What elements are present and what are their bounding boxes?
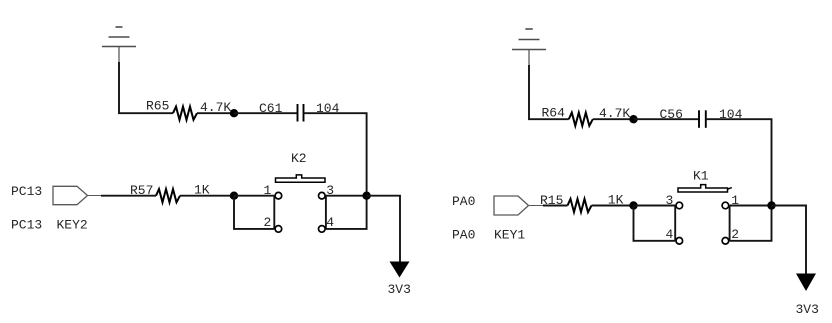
wire to R15 bbox=[543, 205, 568, 207]
ground (right circuit) bbox=[512, 29, 546, 66]
wire C61 to right corner down bbox=[304, 113, 367, 196]
svg-text:K1: K1 bbox=[693, 169, 709, 184]
wire pin3 to node bbox=[326, 195, 367, 197]
svg-text:C56: C56 bbox=[660, 107, 683, 122]
pin 2 bbox=[722, 238, 729, 245]
wire ground to R65 bbox=[119, 62, 173, 113]
svg-text:R64: R64 bbox=[542, 106, 566, 121]
wire node to 3V3 bbox=[367, 196, 400, 262]
wire node to pin1 bbox=[234, 195, 274, 197]
switch K1 button bbox=[678, 185, 728, 192]
svg-text:PA0: PA0 bbox=[452, 228, 475, 243]
wire node to pin3 bbox=[634, 205, 676, 207]
svg-text:KEY2: KEY2 bbox=[57, 217, 88, 232]
switch K1 button tick bbox=[728, 188, 732, 190]
connector PC13 bbox=[53, 186, 88, 204]
svg-text:2: 2 bbox=[264, 215, 272, 230]
resistor R15 bbox=[568, 199, 592, 212]
power 3V3 arrow bbox=[796, 274, 816, 292]
capacitor C61 bbox=[298, 104, 304, 122]
wire R65 to node bbox=[197, 112, 234, 114]
wire R15 to node bbox=[592, 205, 634, 207]
wire connector lead bbox=[88, 195, 105, 197]
wire connector lead bbox=[529, 205, 547, 207]
pin 1 bbox=[275, 192, 282, 199]
wire pin4 row to right bbox=[326, 196, 367, 229]
wire node to C61 bbox=[234, 112, 297, 114]
pin 4 bbox=[676, 238, 683, 245]
svg-text:1: 1 bbox=[264, 183, 272, 198]
pin 3 bbox=[676, 202, 683, 209]
svg-text:3: 3 bbox=[326, 183, 334, 198]
svg-text:PA0: PA0 bbox=[452, 194, 475, 209]
svg-text:4: 4 bbox=[666, 227, 674, 242]
capacitor C56 bbox=[699, 110, 706, 128]
svg-text:4: 4 bbox=[326, 215, 334, 230]
pin 2 bbox=[275, 226, 282, 233]
wire C56 to right corner down bbox=[706, 119, 772, 205]
connector PA0 bbox=[494, 196, 529, 215]
svg-text:R57: R57 bbox=[130, 183, 153, 198]
wire pin2 row to right bbox=[730, 206, 772, 241]
node junction dot bbox=[629, 201, 637, 209]
wire node to 3V3 bbox=[772, 206, 807, 275]
wire ground to R64 bbox=[529, 65, 569, 119]
pin 4 bbox=[319, 226, 326, 233]
svg-text:KEY1: KEY1 bbox=[494, 228, 525, 243]
wire R57 to node bbox=[180, 195, 234, 197]
wire node down to pin2 row bbox=[234, 196, 274, 229]
node junction dot bbox=[230, 109, 238, 117]
svg-text:3V3: 3V3 bbox=[796, 302, 819, 317]
wire pin1 to pin2 bbox=[729, 206, 731, 241]
wire pin1 to pin2 bbox=[273, 196, 275, 229]
wire node down to pin4 row bbox=[634, 206, 676, 241]
switch K2 button bbox=[276, 175, 326, 182]
svg-text:1: 1 bbox=[731, 193, 739, 208]
pin 3 bbox=[319, 192, 326, 199]
svg-text:R65: R65 bbox=[146, 99, 169, 114]
resistor R57 bbox=[156, 189, 180, 202]
wire to R57 bbox=[101, 195, 156, 197]
resistor R65 bbox=[173, 107, 197, 120]
node junction dot bbox=[767, 201, 775, 209]
svg-text:K2: K2 bbox=[291, 151, 307, 166]
resistor R64 bbox=[569, 113, 593, 126]
svg-text:PC13: PC13 bbox=[11, 217, 42, 232]
wire pin3 to pin4 bbox=[674, 206, 676, 241]
power 3V3 arrow bbox=[390, 262, 410, 278]
svg-text:3V3: 3V3 bbox=[388, 282, 411, 297]
wire node to C56 bbox=[634, 118, 700, 120]
svg-text:2: 2 bbox=[731, 227, 739, 242]
ground (left circuit) bbox=[102, 27, 136, 63]
svg-text:3: 3 bbox=[666, 193, 674, 208]
wire R64 to node bbox=[593, 118, 634, 120]
svg-text:C61: C61 bbox=[259, 101, 283, 116]
node junction dot bbox=[362, 192, 370, 200]
node junction dot bbox=[629, 115, 637, 123]
node junction dot bbox=[230, 192, 238, 200]
wire pin1 to node bbox=[730, 205, 772, 207]
svg-text:PC13: PC13 bbox=[11, 184, 42, 199]
wire pin3 to pin4 bbox=[325, 196, 327, 229]
pin 1 bbox=[722, 202, 729, 209]
svg-text:R15: R15 bbox=[540, 193, 563, 208]
